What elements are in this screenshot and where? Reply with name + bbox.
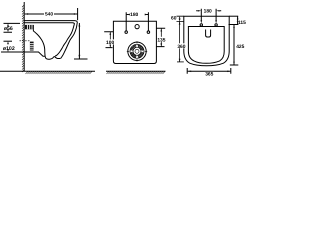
front dim 115 ext line	[229, 24, 239, 26]
front dim 180 line + outside arrows	[196, 10, 221, 12]
front mounting hole left	[200, 24, 202, 26]
dim o56 arrows	[7, 23, 9, 32]
outlet pipe o102 body	[30, 42, 34, 51]
svg-text:ø102: ø102	[3, 46, 15, 52]
front dim 60 arrows	[179, 16, 181, 21]
plan dim 100 text	[106, 39, 115, 44]
plan dim 180 arrows	[126, 14, 148, 16]
drain cross ticks	[127, 41, 147, 61]
front dim 360 arrows	[179, 21, 181, 62]
front dim 360 text	[177, 43, 185, 48]
front dim 180 stems	[201, 9, 216, 21]
dim 540 extension line	[77, 8, 79, 20]
dim 540 arrows	[25, 13, 78, 15]
svg-text:540: 540	[45, 12, 53, 18]
plan hole stems	[126, 12, 148, 30]
front dim 115 arrows	[237, 16, 239, 24]
front dim 365 line	[188, 70, 231, 72]
front dim 60 ext lines	[177, 16, 184, 21]
height dim arrows	[79, 23, 81, 59]
wall hatching	[22, 5, 24, 72]
height dim line (unlabeled)	[78, 23, 80, 59]
floor hatching left	[26, 71, 92, 74]
plan drain middle circle	[133, 47, 141, 55]
bowl outlet bump	[45, 56, 60, 59]
plan dim 180 line	[127, 14, 148, 16]
height dim bottom level line	[74, 58, 88, 60]
front dim 425 ext line	[230, 64, 239, 66]
plan dim 135 arrows	[160, 28, 162, 46]
plan dim 100 arrows	[109, 32, 111, 48]
floor line left segment	[0, 70, 95, 72]
plan drain outer circle	[128, 42, 146, 60]
floor line middle segment	[106, 70, 166, 72]
toilet rim second line + front inner curve	[24, 23, 74, 56]
svg-text:100: 100	[106, 40, 114, 46]
wall	[23, 2, 25, 72]
front view outer outline	[184, 16, 229, 66]
svg-text:365: 365	[205, 71, 213, 77]
svg-text:425: 425	[236, 44, 244, 50]
front dim 425 arrows	[233, 25, 235, 66]
front dim 180 text	[203, 9, 212, 14]
front mounting hole right	[215, 24, 217, 26]
outlet centerline dashed	[20, 40, 31, 42]
plan view outline	[113, 21, 156, 63]
toilet top rim outer + front face outer curve	[24, 21, 77, 59]
front dim 360 ext line bottom	[177, 61, 184, 63]
svg-text:ø56: ø56	[4, 26, 13, 32]
plan dim 135 text	[157, 37, 166, 42]
svg-text:180: 180	[204, 9, 212, 15]
dim o56 extension lines	[4, 23, 21, 32]
plan mounting hole right	[147, 31, 150, 34]
dim o102 extension lines	[4, 40, 13, 42]
front trap U shape	[206, 30, 211, 38]
plan drain hatch spokes	[130, 44, 144, 58]
svg-text:60: 60	[171, 16, 177, 22]
dim 540 line	[25, 13, 78, 15]
plan dim 100 ext lines	[104, 32, 113, 48]
front dim 180 stem arrows	[200, 20, 217, 23]
svg-text:115: 115	[238, 20, 246, 26]
back outline curve down from pipe	[33, 29, 45, 56]
plan dim 135 ext lines	[156, 28, 165, 46]
drain ring circle	[130, 44, 144, 58]
front dim 115/425 top ext	[229, 15, 238, 17]
plan dim 135 line	[160, 28, 162, 46]
front dim 365 arrows	[188, 70, 231, 72]
plan drain inner circle	[135, 49, 139, 53]
front dim 365 ext lines	[187, 68, 231, 74]
front dim 365 text	[205, 72, 215, 76]
plan mounting hole left	[125, 31, 128, 34]
front dim 360 line	[179, 21, 181, 62]
dim o102 arrows	[7, 41, 9, 52]
plan dim 100 line	[109, 32, 111, 48]
front view inner contour	[188, 27, 224, 64]
svg-text:360: 360	[177, 44, 185, 50]
front dim column line	[234, 16, 238, 65]
inlet pipe o56 body	[25, 25, 34, 29]
plan inlet circle	[135, 25, 139, 29]
floor hatching middle	[107, 71, 165, 74]
bowl underside	[1, 52, 45, 56]
svg-text:135: 135	[157, 37, 165, 43]
svg-text:180: 180	[130, 12, 138, 18]
